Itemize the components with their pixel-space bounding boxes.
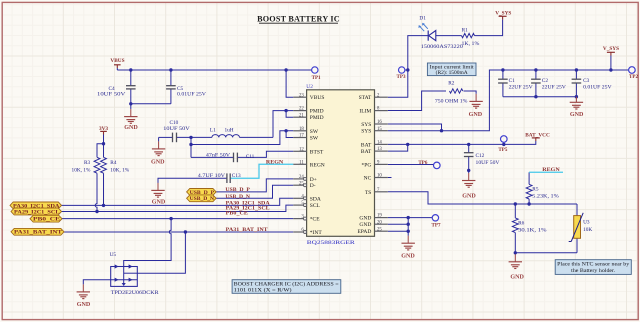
svg-text:TP6: TP6 xyxy=(418,160,427,166)
svg-text:4.7UF 10V: 4.7UF 10V xyxy=(198,173,225,179)
svg-text:SDA: SDA xyxy=(310,196,321,202)
svg-text:10UF 50V: 10UF 50V xyxy=(476,160,500,166)
svg-text:SYS: SYS xyxy=(361,122,371,128)
svg-text:11: 11 xyxy=(299,160,304,165)
svg-text:25: 25 xyxy=(299,181,304,186)
svg-text:10K: 10K xyxy=(583,227,592,233)
svg-text:PB0_CE: PB0_CE xyxy=(226,211,249,217)
svg-text:PMID: PMID xyxy=(310,109,324,115)
svg-text:22UF 25V: 22UF 25V xyxy=(509,84,533,90)
svg-text:GND: GND xyxy=(570,112,584,118)
svg-text:Input current limit: Input current limit xyxy=(430,65,475,70)
svg-text:USB_D_P: USB_D_P xyxy=(225,187,250,193)
svg-text:23: 23 xyxy=(299,93,304,98)
svg-text:SW: SW xyxy=(310,136,319,142)
svg-text:C3: C3 xyxy=(583,78,590,84)
svg-text:R5: R5 xyxy=(532,186,539,192)
svg-text:GND: GND xyxy=(510,274,524,280)
svg-text:18: 18 xyxy=(299,127,304,132)
svg-text:10K, 1%: 10K, 1% xyxy=(72,167,91,173)
svg-text:ILIM: ILIM xyxy=(359,109,371,115)
svg-text:3V3: 3V3 xyxy=(99,126,108,132)
svg-text:0.01UF 25V: 0.01UF 25V xyxy=(177,91,206,97)
svg-text:BAT: BAT xyxy=(361,142,372,148)
svg-text:GND: GND xyxy=(151,159,165,165)
svg-text:GND: GND xyxy=(469,112,483,118)
svg-text:R6: R6 xyxy=(518,220,525,226)
svg-text:REGN: REGN xyxy=(266,160,284,166)
svg-text:D1: D1 xyxy=(419,16,426,22)
svg-text:BQ25883RGER: BQ25883RGER xyxy=(307,240,356,246)
svg-text:U3: U3 xyxy=(583,220,590,226)
svg-text:750 OHM 1%: 750 OHM 1% xyxy=(435,99,468,105)
svg-text:L1: L1 xyxy=(210,128,216,134)
svg-text:GND: GND xyxy=(124,125,138,131)
svg-text:PB0_CE: PB0_CE xyxy=(33,218,61,223)
svg-text:PA31_BAT_INT: PA31_BAT_INT xyxy=(14,231,63,236)
svg-text:C2: C2 xyxy=(542,78,549,84)
svg-text:13: 13 xyxy=(377,147,382,152)
svg-text:R3: R3 xyxy=(84,160,91,166)
svg-text:BOOST BATTERY IC: BOOST BATTERY IC xyxy=(257,14,340,23)
svg-text:15: 15 xyxy=(377,127,382,132)
svg-text:SCL: SCL xyxy=(310,203,321,209)
svg-text:20: 20 xyxy=(377,220,382,225)
svg-text:PA31_BAT_INT: PA31_BAT_INT xyxy=(226,227,269,233)
svg-text:(R2): 1500mA: (R2): 1500mA xyxy=(436,71,469,76)
svg-text:BOOST CHARGER IC (I2C) ADDRESS: BOOST CHARGER IC (I2C) ADDRESS = xyxy=(234,280,339,287)
svg-text:10UF 50V: 10UF 50V xyxy=(163,126,190,132)
svg-text:PMID: PMID xyxy=(310,115,324,121)
svg-text:1K, 1%: 1K, 1% xyxy=(462,41,480,47)
svg-text:U5: U5 xyxy=(110,252,117,258)
svg-text:19: 19 xyxy=(377,214,382,219)
svg-text:*CE: *CE xyxy=(310,217,320,223)
svg-text:the Battery holder.: the Battery holder. xyxy=(571,269,615,274)
svg-text:C12: C12 xyxy=(476,153,485,159)
svg-text:22UF 25V: 22UF 25V xyxy=(542,84,566,90)
svg-text:R1: R1 xyxy=(462,28,469,34)
svg-text:TP7: TP7 xyxy=(432,223,441,229)
svg-text:V_SYS: V_SYS xyxy=(495,11,511,17)
svg-text:D-: D- xyxy=(310,183,316,189)
svg-text:GND: GND xyxy=(462,193,476,199)
svg-text:24: 24 xyxy=(299,175,304,180)
svg-text:C13: C13 xyxy=(232,173,241,179)
svg-text:21: 21 xyxy=(299,113,304,118)
svg-text:TP5: TP5 xyxy=(498,147,507,153)
svg-text:10: 10 xyxy=(377,174,382,179)
svg-text:TS: TS xyxy=(365,190,371,196)
svg-text:SYS: SYS xyxy=(361,129,371,135)
svg-text:BAT_VCC: BAT_VCC xyxy=(525,132,550,138)
svg-text:17: 17 xyxy=(299,134,304,139)
svg-text:1uH: 1uH xyxy=(225,128,234,134)
svg-text:14: 14 xyxy=(377,141,382,146)
svg-text:GND: GND xyxy=(77,302,91,308)
svg-text:GND: GND xyxy=(152,200,166,206)
svg-text:BTST: BTST xyxy=(310,149,324,155)
svg-text:USB_D_N: USB_D_N xyxy=(190,197,215,202)
svg-text:1101 011X (X = R/W): 1101 011X (X = R/W) xyxy=(234,287,292,294)
svg-text:GND: GND xyxy=(359,216,371,222)
svg-text:30.1K, 1%: 30.1K, 1% xyxy=(518,228,547,234)
svg-text:10UF 50V: 10UF 50V xyxy=(97,91,126,97)
svg-text:GND: GND xyxy=(359,222,371,228)
svg-text:*PG: *PG xyxy=(362,162,372,168)
svg-text:VBUS: VBUS xyxy=(110,58,124,64)
svg-text:16: 16 xyxy=(377,120,382,125)
svg-text:0.01UF 25V: 0.01UF 25V xyxy=(583,84,612,90)
svg-text:EPAD: EPAD xyxy=(357,229,371,235)
svg-text:TP3: TP3 xyxy=(397,74,406,80)
svg-text:47nF 50V: 47nF 50V xyxy=(206,153,230,159)
svg-text:REGN: REGN xyxy=(310,162,325,168)
svg-text:GND: GND xyxy=(401,253,415,259)
svg-text:USB_D_N: USB_D_N xyxy=(225,194,250,200)
svg-text:*INT: *INT xyxy=(310,230,323,236)
svg-text:NC: NC xyxy=(364,176,372,182)
svg-text:TP2: TP2 xyxy=(629,74,638,80)
svg-text:U2: U2 xyxy=(306,84,313,90)
svg-text:25: 25 xyxy=(377,227,382,232)
svg-text:PA29_I2C1_SCL: PA29_I2C1_SCL xyxy=(14,210,60,215)
svg-text:STAT: STAT xyxy=(359,95,372,101)
svg-text:REGN: REGN xyxy=(542,167,560,173)
svg-text:10K, 1%: 10K, 1% xyxy=(110,167,129,173)
svg-text:C11: C11 xyxy=(246,154,255,160)
svg-text:TPD2E2U06DCKR: TPD2E2U06DCKR xyxy=(111,290,159,296)
svg-text:SW: SW xyxy=(310,129,319,135)
svg-text:BAT: BAT xyxy=(361,149,372,155)
svg-text:150060AS73220: 150060AS73220 xyxy=(421,44,463,50)
svg-text:C1: C1 xyxy=(509,78,516,84)
svg-text:22: 22 xyxy=(299,107,304,112)
svg-text:VBUS: VBUS xyxy=(310,95,325,101)
svg-text:D+: D+ xyxy=(310,177,317,183)
svg-text:5.23K, 1%: 5.23K, 1% xyxy=(532,194,559,200)
svg-text:V_SYS: V_SYS xyxy=(603,46,619,52)
svg-text:12: 12 xyxy=(299,147,304,152)
svg-text:TP1: TP1 xyxy=(312,75,321,81)
svg-text:Place this NTC sensor near by: Place this NTC sensor near by xyxy=(557,263,630,268)
svg-text:R4: R4 xyxy=(110,160,117,166)
svg-text:R2: R2 xyxy=(448,80,455,86)
